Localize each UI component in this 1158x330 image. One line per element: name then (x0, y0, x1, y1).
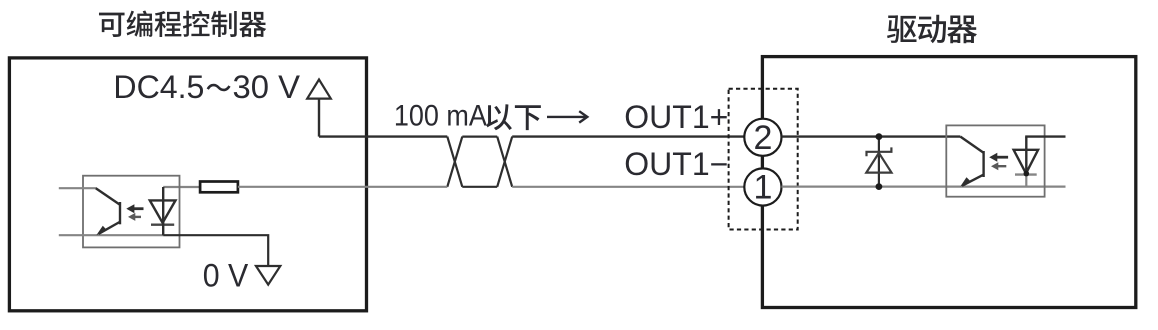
wire: supply arrow down to OUT1+ line (318, 99, 320, 137)
wire: OUT1- gray from twist to pin 1 (512, 186, 744, 188)
label: driver title (驱动器) (887, 15, 977, 44)
photocoupler PC2 light arrows (989, 153, 1008, 171)
wire: OUT1- gray from resistor to twist (238, 186, 447, 188)
svg-text:30 V: 30 V (233, 69, 301, 105)
wire: driver internal OUT1+ from pin 2 to photocoupler (782, 135, 961, 137)
photocoupler PC1 LED (150, 187, 176, 235)
svg-text:OUT1+: OUT1+ (624, 99, 728, 135)
driver enclosure box (762, 57, 1135, 308)
current direction arrow (547, 111, 587, 122)
svg-text:OUT1−: OUT1− (624, 146, 728, 182)
svg-text:0 V: 0 V (203, 257, 249, 293)
wire: driver internal OUT1- gray from pin 1 across to right (782, 186, 1066, 188)
photocoupler PC1 body (left) (83, 176, 180, 248)
label: DC4.5~30 V supply (113, 69, 300, 105)
svg-text:1: 1 (753, 169, 772, 207)
svg-text:2: 2 (753, 119, 772, 157)
0V ground down-arrow symbol (256, 266, 280, 285)
wire: OUT1+ twist section (447, 137, 512, 187)
zener diode ZD1 vertical wire (878, 137, 880, 187)
connector dashed outline (729, 89, 798, 230)
photocoupler PC1 phototransistor (96, 188, 120, 234)
connector pin 1 circle (744, 168, 781, 205)
label: programmable controller title (可编程控制器) (99, 10, 266, 37)
wire: OUT1- gray from LED node to resistor (163, 186, 200, 188)
junction dot top (876, 133, 883, 140)
power supply up-arrow symbol (307, 80, 331, 99)
svg-text:100 mA: 100 mA (394, 100, 487, 133)
zener diode ZD1 symbol (866, 147, 891, 172)
wire: LED anode to driver internal supply (1025, 135, 1065, 137)
resistor (current limiting) (200, 182, 238, 193)
photocoupler PC1 light arrows (126, 204, 143, 221)
photocoupler PC1 phototransistor leads (gray) (59, 187, 97, 189)
wire: OUT1+ (top) from supply corner to twist (319, 135, 447, 137)
photocoupler PC2 LED (1014, 137, 1039, 187)
PLC enclosure box (9, 58, 366, 311)
connector pin 2 circle (744, 119, 781, 156)
label: 100 mA max current (100 mA以下→) (394, 100, 541, 133)
wire: OUT1+ from twist to pin 2 (512, 135, 744, 137)
wire: LED cathode to 0V (163, 235, 268, 266)
photocoupler PC2 phototransistor (960, 137, 983, 186)
svg-text:DC4.5: DC4.5 (113, 69, 204, 105)
junction dot bottom (876, 183, 883, 190)
photocoupler PC2 body (946, 125, 1044, 196)
